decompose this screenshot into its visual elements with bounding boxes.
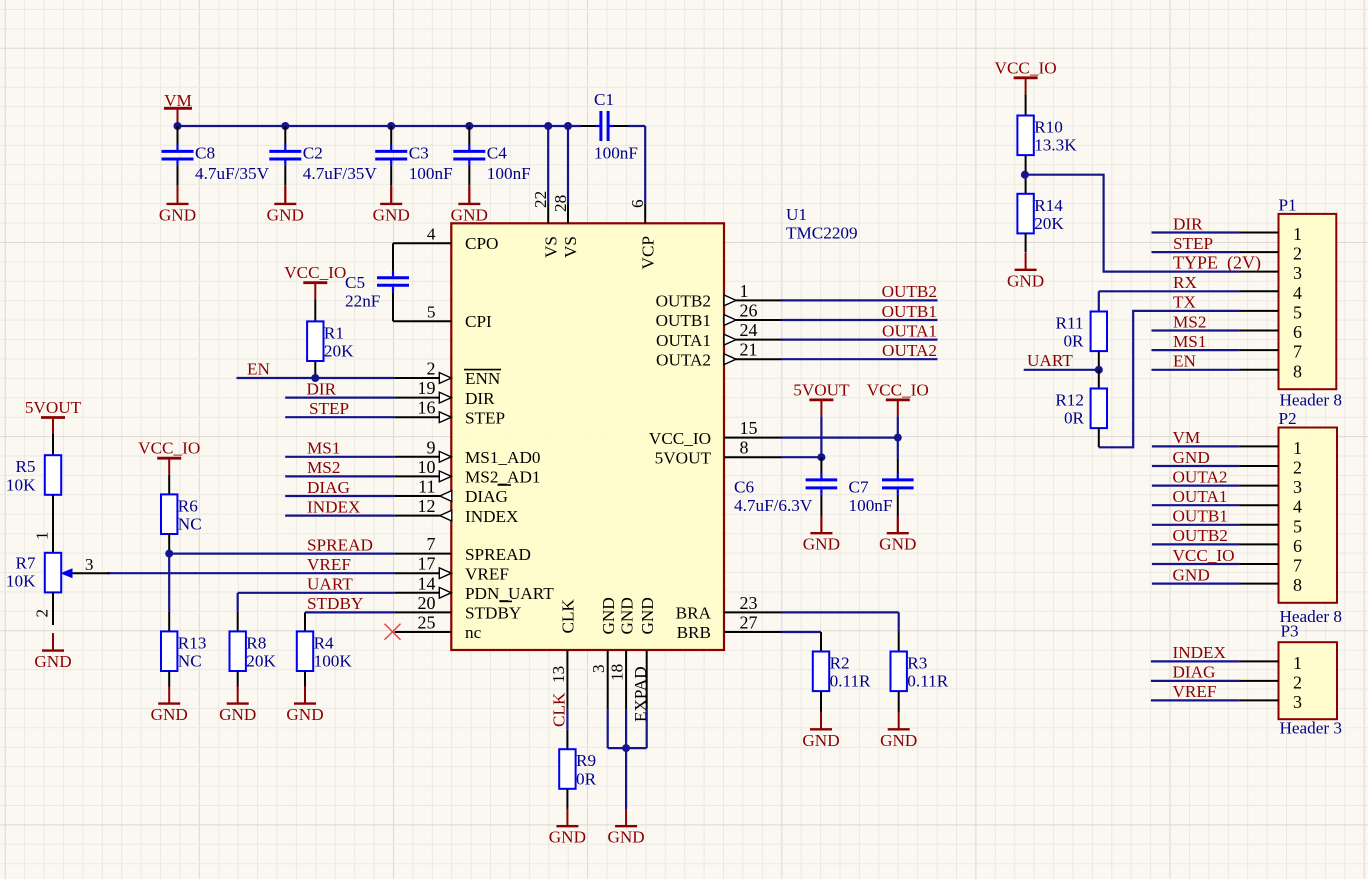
svg-text:0R: 0R (1064, 409, 1085, 428)
R5-R7 lead (52, 495, 54, 553)
capacitor C6 (734, 457, 837, 532)
wire VCC_IO to C7 (897, 438, 899, 459)
svg-text:CLK: CLK (559, 599, 578, 634)
svg-text:GND: GND (1173, 448, 1210, 467)
svg-text:R14: R14 (1034, 196, 1063, 215)
pin 13 CLK (549, 599, 578, 710)
R11 bottom lead (1098, 351, 1100, 370)
svg-text:VCC_IO: VCC_IO (138, 439, 200, 458)
svg-text:OUTA1: OUTA1 (1173, 487, 1228, 506)
wire VCC_IO (P2) (1152, 563, 1240, 565)
pin 25 nc (395, 613, 482, 643)
R1 top lead (314, 299, 316, 321)
junction C3 (387, 122, 395, 130)
svg-text:11: 11 (418, 477, 435, 497)
svg-text:24: 24 (740, 320, 758, 340)
junction GND pins (622, 744, 630, 752)
pin 27 BRB (677, 613, 782, 643)
svg-text:20K: 20K (1034, 214, 1064, 233)
ground under C6 (803, 516, 840, 554)
wire OUTA1 (P2) (1152, 504, 1240, 506)
svg-text:CPI: CPI (465, 312, 492, 331)
svg-text:R3: R3 (907, 654, 927, 673)
svg-text:ENN: ENN (465, 369, 501, 388)
svg-text:R2: R2 (830, 654, 850, 673)
svg-text:GND: GND (599, 597, 618, 634)
svg-text:R11: R11 (1055, 314, 1083, 333)
pin 8 5VOUT (655, 438, 782, 468)
pin 1 OUTB2 (656, 281, 782, 311)
svg-text:CPO: CPO (465, 234, 498, 253)
svg-text:R9: R9 (576, 751, 596, 770)
svg-text:TMC2209: TMC2209 (786, 224, 858, 243)
R6 bottom lead (168, 534, 170, 554)
wire INDEX (P3) (1151, 660, 1240, 662)
pin 10 MS2_AD1 (395, 457, 541, 487)
svg-text:5: 5 (427, 303, 436, 322)
svg-text:NC: NC (178, 515, 202, 534)
svg-text:GND: GND (267, 205, 304, 224)
svg-text:4: 4 (427, 225, 436, 244)
pin 22 lead (547, 204, 549, 224)
svg-text:VCC_IO: VCC_IO (649, 429, 711, 448)
wire DIAG (285, 495, 394, 497)
P1 pin 6 (1239, 322, 1302, 342)
svg-text:100nF: 100nF (849, 496, 893, 515)
svg-text:OUTB2: OUTB2 (1173, 526, 1228, 545)
power port VCC_IO (C7) (867, 380, 929, 416)
ground under R9 (549, 809, 586, 847)
ground under R13 (151, 686, 188, 724)
R9 bottom lead (566, 789, 568, 809)
svg-text:1: 1 (1293, 438, 1302, 458)
svg-text:GND: GND (638, 597, 657, 634)
wire UART (P1) (1024, 369, 1099, 371)
pin 6 lead (644, 204, 646, 224)
pin 4 CPO (393, 225, 498, 254)
svg-text:22: 22 (531, 191, 550, 208)
svg-text:C1: C1 (594, 90, 614, 109)
svg-text:EN: EN (247, 360, 270, 379)
resistor R11 (1055, 312, 1107, 352)
capacitor C7 (849, 458, 914, 532)
wire down to pin 6 (644, 126, 646, 204)
junction 5VOUT/pin8 (817, 453, 825, 461)
svg-text:GND: GND (451, 205, 488, 224)
svg-text:7: 7 (1293, 556, 1302, 576)
svg-text:RX: RX (1173, 273, 1197, 292)
R7 bottom lead (52, 592, 54, 625)
svg-text:100K: 100K (314, 652, 353, 671)
svg-text:SPREAD: SPREAD (465, 545, 531, 564)
ground under C2 (267, 186, 304, 224)
connector P3 body (1279, 642, 1338, 719)
svg-text:P3: P3 (1281, 622, 1299, 641)
svg-text:STEP: STEP (1173, 234, 1213, 253)
svg-text:OUTA2: OUTA2 (656, 350, 711, 369)
P1 pin 1 (1239, 224, 1302, 244)
R12 top lead (1098, 370, 1100, 389)
svg-text:OUTB2: OUTB2 (656, 292, 711, 311)
svg-text:C5: C5 (345, 273, 365, 292)
svg-text:100nF: 100nF (487, 164, 531, 183)
svg-text:15: 15 (740, 418, 758, 438)
wire BRA down (898, 612, 900, 632)
svg-text:INDEX: INDEX (307, 497, 361, 516)
svg-text:VCC_IO: VCC_IO (1173, 546, 1235, 565)
svg-text:DIR: DIR (465, 389, 495, 408)
svg-text:3: 3 (1293, 263, 1302, 283)
svg-text:7: 7 (427, 534, 436, 554)
ground under C4 (451, 186, 488, 224)
P2 pin 4 (1239, 497, 1302, 517)
junction VCC_IO/pin15 (894, 434, 902, 442)
capacitor C8 (162, 126, 270, 203)
svg-text:12: 12 (418, 496, 436, 516)
wire VCC_IO down (897, 416, 899, 437)
svg-text:OUTA1: OUTA1 (656, 331, 711, 350)
wire MS2 (285, 475, 394, 477)
pin 26 OUTB1 (656, 301, 782, 331)
R8 top lead (237, 612, 239, 632)
svg-text:DIAG: DIAG (307, 478, 350, 497)
svg-text:0.11R: 0.11R (830, 672, 871, 691)
svg-text:VM: VM (1173, 428, 1201, 447)
pin 18 GND (608, 597, 637, 709)
svg-text:VCP: VCP (638, 236, 657, 269)
wire divider tap to P1 pin3 (1025, 175, 1240, 272)
wire DIR (P1) (1152, 231, 1240, 233)
svg-text:20K: 20K (246, 652, 276, 671)
wire OUTB1 (P2) (1152, 524, 1240, 526)
junction C2 (281, 122, 289, 130)
wire UART down to R8 (237, 593, 239, 612)
svg-text:GND: GND (802, 731, 839, 750)
wire BRB (782, 631, 822, 633)
ground under R2 (802, 712, 839, 750)
resistor R5 (6, 455, 61, 495)
svg-text:20: 20 (418, 593, 436, 613)
svg-text:MS1: MS1 (1173, 332, 1206, 351)
svg-text:VS: VS (561, 236, 580, 258)
svg-text:6: 6 (628, 199, 647, 208)
wire MS2 (P1) (1152, 329, 1240, 331)
svg-text:1: 1 (1293, 653, 1302, 673)
pin 2 ENN (395, 359, 501, 389)
svg-text:Header 8: Header 8 (1280, 391, 1343, 410)
R3 top lead (898, 632, 900, 652)
wire VREF (P3) (1151, 699, 1240, 701)
junction pin28 (564, 122, 572, 130)
P1 pin 3 (1239, 263, 1302, 283)
svg-text:MS1: MS1 (307, 439, 340, 458)
wire VM (P2) (1152, 445, 1240, 447)
pin 11 DIAG (395, 477, 508, 507)
P2 pin 8 (1239, 575, 1302, 595)
svg-text:U1: U1 (786, 205, 807, 224)
svg-text:3: 3 (589, 664, 608, 673)
svg-text:4.7uF/35V: 4.7uF/35V (195, 164, 270, 183)
P1 pin 2 (1239, 244, 1302, 264)
svg-text:VCC_IO: VCC_IO (284, 263, 346, 282)
svg-text:R5: R5 (15, 457, 35, 476)
svg-text:OUTB1: OUTB1 (1173, 507, 1228, 526)
capacitor C5 (345, 243, 409, 321)
wire OUTB2 (P2) (1152, 543, 1240, 545)
resistor R14 (1017, 194, 1064, 234)
svg-text:R4: R4 (314, 633, 334, 652)
connector P2 body (1279, 428, 1338, 603)
capacitor C3 (375, 126, 452, 203)
junction EN/R1 (311, 374, 319, 382)
svg-text:GND: GND (607, 828, 644, 847)
svg-text:GND: GND (373, 205, 410, 224)
wire 5VOUT down (820, 416, 822, 457)
svg-text:8: 8 (1293, 361, 1302, 381)
svg-text:R6: R6 (178, 496, 198, 515)
svg-text:STDBY: STDBY (307, 594, 363, 613)
svg-text:C6: C6 (734, 478, 754, 497)
svg-text:23: 23 (740, 593, 758, 613)
svg-text:4: 4 (1293, 283, 1302, 303)
svg-text:OUTA2: OUTA2 (882, 341, 937, 360)
svg-text:27: 27 (740, 613, 758, 633)
R3 bottom lead (898, 691, 900, 712)
svg-text:22nF: 22nF (345, 292, 380, 311)
svg-text:GND: GND (286, 705, 323, 724)
wire GND3 down (607, 709, 609, 748)
svg-text:R12: R12 (1055, 391, 1084, 410)
wire R6 to R13 (168, 554, 170, 612)
wire DIAG (P3) (1151, 680, 1240, 682)
R10 top lead (1025, 94, 1027, 115)
R7 wiper lead (73, 572, 110, 574)
wire GND18 down (625, 709, 627, 748)
wire to pin 28 (567, 126, 569, 204)
wire pin15 VCC_IO (782, 437, 898, 439)
svg-text:28: 28 (551, 195, 570, 212)
svg-text:DIR: DIR (307, 379, 337, 398)
svg-text:100nF: 100nF (409, 164, 453, 183)
svg-text:26: 26 (740, 301, 758, 321)
svg-text:9: 9 (427, 437, 436, 457)
wire to pin 22 (547, 126, 549, 204)
R8 bottom lead (237, 671, 239, 687)
svg-text:VREF: VREF (307, 555, 351, 574)
svg-text:R8: R8 (246, 633, 266, 652)
wire OUTB2 (782, 299, 938, 301)
P3 pin 3 (1240, 692, 1302, 712)
resistor R6 (161, 494, 202, 534)
svg-text:1: 1 (740, 281, 749, 301)
junction VM/C8 (174, 122, 182, 130)
svg-text:DIAG: DIAG (1173, 663, 1216, 682)
svg-text:13: 13 (549, 666, 568, 683)
svg-text:7: 7 (1293, 342, 1302, 362)
pin 12 INDEX (395, 496, 519, 526)
svg-text:R13: R13 (178, 633, 207, 652)
pin 5 CPI (393, 303, 492, 332)
svg-text:SPREAD: SPREAD (307, 535, 373, 554)
wire TX from R12 (1099, 311, 1240, 447)
svg-text:1: 1 (33, 531, 52, 540)
R12 bottom lead (1098, 428, 1100, 447)
svg-text:0R: 0R (1063, 332, 1084, 351)
svg-text:BRA: BRA (676, 604, 712, 623)
wire MS1 (P1) (1152, 349, 1240, 351)
power port VCC_IO (R1) (284, 263, 346, 299)
ground under C3 (373, 186, 410, 224)
pin 24 OUTA1 (656, 320, 781, 350)
R2 bottom lead (820, 691, 822, 712)
resistor R10 (1017, 116, 1077, 156)
svg-text:OUTA2: OUTA2 (1173, 467, 1228, 486)
wire EN (237, 377, 395, 379)
svg-text:4.7uF/35V: 4.7uF/35V (303, 164, 378, 183)
svg-text:10K: 10K (6, 475, 36, 494)
ground under C8 (159, 186, 196, 224)
svg-text:NC: NC (178, 652, 202, 671)
svg-text:VCC_IO: VCC_IO (995, 58, 1057, 77)
R5 top lead (52, 434, 54, 455)
P2 pin 1 (1239, 438, 1302, 458)
svg-text:18: 18 (608, 664, 627, 681)
overline DIAG G (498, 484, 512, 486)
svg-text:8: 8 (1293, 575, 1302, 595)
pin 3 GND (589, 597, 618, 709)
ground under R4 (286, 686, 323, 724)
svg-text:MS2_AD1: MS2_AD1 (465, 468, 540, 487)
wire EXPAD down (646, 709, 648, 748)
svg-text:VREF: VREF (1173, 682, 1217, 701)
svg-text:GND: GND (880, 731, 917, 750)
wire VREF (108, 572, 395, 574)
svg-text:GND: GND (151, 705, 188, 724)
svg-text:C2: C2 (303, 144, 323, 163)
svg-text:R7: R7 (15, 553, 35, 572)
svg-text:OUTB1: OUTB1 (656, 311, 711, 330)
svg-text:TX: TX (1173, 293, 1196, 312)
svg-text:5: 5 (1293, 302, 1302, 322)
svg-text:3: 3 (1293, 692, 1302, 712)
P1 pin 8 (1239, 361, 1302, 381)
R6 top lead (168, 475, 170, 495)
wire STEP (P1) (1152, 251, 1240, 253)
power port VCC_IO (R6) (138, 439, 200, 475)
ground under R7 (34, 633, 71, 671)
wire C1 to VCP (628, 125, 645, 127)
svg-text:MS2: MS2 (307, 458, 340, 477)
power port 5VOUT (C6) (793, 380, 850, 416)
resistor R9 (559, 749, 596, 789)
svg-text:2: 2 (427, 359, 436, 379)
svg-text:4.7uF/6.3V: 4.7uF/6.3V (734, 496, 813, 515)
svg-text:14: 14 (418, 573, 436, 593)
svg-text:4: 4 (1293, 497, 1302, 517)
svg-text:VCC_IO: VCC_IO (867, 380, 929, 399)
wire GND join (608, 747, 647, 749)
wire STDBY (305, 611, 395, 613)
P2 pin 2 (1239, 458, 1302, 478)
wire OUTA2 (782, 358, 938, 360)
svg-text:3: 3 (1293, 477, 1302, 497)
wire OUTA1 (782, 339, 938, 341)
svg-text:UART: UART (307, 575, 353, 594)
svg-text:P2: P2 (1279, 409, 1297, 428)
svg-text:DIAG: DIAG (465, 487, 508, 506)
svg-text:6: 6 (1293, 322, 1302, 342)
svg-text:C4: C4 (487, 144, 507, 163)
R13 bottom lead (168, 671, 170, 687)
svg-text:0.11R: 0.11R (907, 672, 948, 691)
svg-text:GND: GND (879, 535, 916, 554)
svg-text:EN: EN (1173, 352, 1196, 371)
overline STDBY B (500, 600, 513, 602)
svg-text:R10: R10 (1034, 118, 1063, 137)
ground under C7 (879, 516, 916, 554)
R13 top lead (168, 612, 170, 632)
svg-text:21: 21 (740, 340, 758, 360)
resistor R12 (1055, 389, 1107, 429)
P3 pin 2 (1240, 672, 1302, 692)
R1 bottom lead (314, 361, 316, 378)
svg-text:GND: GND (159, 205, 196, 224)
resistor R3 (891, 652, 949, 692)
wire OUTA2 (P2) (1152, 485, 1240, 487)
svg-text:10K: 10K (6, 571, 36, 590)
svg-text:C3: C3 (409, 144, 429, 163)
pin 20 STDBY (395, 593, 522, 623)
wire OUTB1 (782, 319, 938, 321)
svg-text:VS: VS (541, 236, 560, 258)
svg-text:5VOUT: 5VOUT (25, 398, 82, 417)
svg-text:Header 3: Header 3 (1280, 719, 1343, 738)
svg-text:PDN_UART: PDN_UART (465, 584, 554, 603)
pin 21 OUTA2 (656, 340, 781, 370)
pin 16 STEP (395, 398, 506, 428)
pin 7 SPREAD (395, 534, 531, 564)
svg-text:0R: 0R (576, 769, 597, 788)
pin EXPAD GND (631, 597, 657, 722)
svg-text:nc: nc (465, 623, 482, 642)
P2 pin 5 (1239, 516, 1302, 536)
potentiometer R7 (6, 553, 73, 593)
svg-text:GND: GND (219, 705, 256, 724)
wire EN (P1) (1152, 369, 1240, 371)
resistor R4 (297, 631, 353, 671)
svg-text:INDEX: INDEX (1173, 643, 1227, 662)
svg-text:TYPE (2V): TYPE (2V) (1173, 252, 1261, 273)
R4 bottom lead (304, 671, 306, 687)
wire GND (P2) (1152, 465, 1240, 467)
junction pin22 (544, 122, 552, 130)
resistor R13 (161, 631, 206, 671)
svg-text:8: 8 (740, 438, 749, 458)
junction SPREAD/R6 (165, 550, 173, 558)
pin 23 BRA (676, 593, 782, 623)
R4 top lead (304, 612, 306, 631)
svg-text:MS1_AD0: MS1_AD0 (465, 448, 540, 467)
wire DIR (285, 397, 394, 399)
pin 14 PDN_UART (395, 573, 555, 603)
svg-text:6: 6 (1293, 536, 1302, 556)
svg-text:100nF: 100nF (594, 144, 638, 163)
svg-text:1: 1 (1293, 224, 1302, 244)
svg-text:16: 16 (418, 398, 436, 418)
wire to ground (625, 748, 627, 809)
wire INDEX (285, 514, 394, 516)
svg-text:2: 2 (1293, 244, 1302, 264)
